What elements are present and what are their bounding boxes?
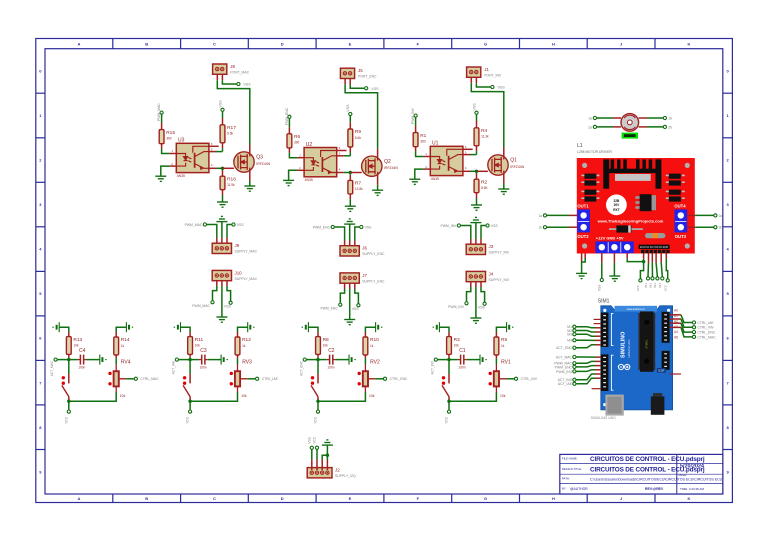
wire PWM_ENC to J6.1 [335,227,345,241]
L298 regulator IC [635,194,656,211]
wire ACT_ENC to node [307,359,318,361]
terminal 2a [593,125,596,128]
transistor Q3 (IRFZ44N) [234,152,271,172]
GND stub [613,254,615,263]
wire J4.3 to VSS [481,287,485,302]
R1 bottom stub [415,147,417,152]
svg-text:VSS: VSS [307,437,311,443]
svg-text:1k: 1k [121,344,125,348]
svg-text:R13: R13 [73,337,82,343]
wire ground to J9.2 [221,222,223,238]
svg-text:1b: 1b [668,116,672,120]
svg-text:www.arduino.cc: www.arduino.cc [627,307,646,311]
svg-text:·−·−·: ·−·−· [341,242,349,245]
svg-text:SUPPLY_ENC: SUPPLY_ENC [362,279,385,283]
svg-text:ACT_MAC: ACT_MAC [556,355,573,359]
U3 pin 1 stub [170,153,177,155]
ground (Q3 source) [244,186,255,191]
junction gate node [475,170,478,173]
svg-text:ACT_INV: ACT_INV [430,360,434,374]
svg-text:RXT: RXT [613,208,619,212]
wire VSS to R9 [349,116,351,122]
wire J8.2 to VSS [222,80,236,84]
terminal VSS [486,224,489,227]
OUT4 stub [687,214,695,216]
svg-text:10k: 10k [500,394,506,398]
terminal ACT_MAC [573,355,576,358]
terminal 2b [714,226,717,229]
J9 pin 3 stub [226,238,228,243]
svg-text:RV1: RV1 [501,359,511,365]
wire GND to ground [613,263,615,276]
svg-text:FILE NAME:: FILE NAME: [562,457,578,461]
svg-text:J9: J9 [235,243,240,248]
svg-text:IRFZ44N: IRFZ44N [384,166,398,170]
junction switch node [67,400,70,403]
J6 pin 1 stub [344,241,346,246]
wire motor to 2b [647,126,663,128]
optocoupler U2 (4N35) [299,142,340,182]
wire C2 to battery [336,359,349,361]
svg-text:R16: R16 [227,176,236,182]
terminal M1 [573,325,576,328]
terminal VSS [232,223,235,226]
OUT3 stub [687,226,695,228]
potentiometer adjust arrows [230,372,233,386]
svg-text:CTRL_MAC: CTRL_MAC [697,335,716,339]
wire IN3 to terminal [656,263,657,277]
svg-text:K: K [687,496,690,501]
svg-text:BY:: BY: [562,487,567,491]
R3 bottom stub [448,354,450,357]
wire switch node to pot bottom [190,392,237,401]
ground (J3) [470,217,481,222]
svg-text:13.8k: 13.8k [355,187,363,191]
battery symbol (VCC) [174,322,181,332]
board GND stub a [581,254,583,263]
wire battery to R13 [59,327,69,332]
Q2 gate stub [350,172,361,174]
svg-text:G: G [484,496,487,501]
resistor R3 [447,337,460,355]
L298 diode [609,225,643,232]
R14 bottom stub [115,355,117,358]
ground (R16) [217,202,228,207]
wire J2.2 to VCC [316,449,318,459]
terminal VSS [360,225,363,228]
svg-text:·−·−·: ·−·−· [467,80,475,83]
svg-text:·−·−·: ·−·−· [467,241,475,244]
svg-text:C: C [213,41,216,46]
terminal IN3 [656,277,659,280]
Arduino right header upper [662,312,670,343]
wire IN4 to terminal [661,262,662,276]
ground (opto emitter) [155,176,166,181]
switch throw stub [448,397,450,401]
L298 heatsink clamp bar [615,174,651,181]
terminal IN4 [661,277,664,280]
svg-text:C1: C1 [459,348,466,354]
terminal VSS [357,304,360,307]
svg-text:PWM_MAC: PWM_MAC [185,223,203,227]
svg-text:@AUTHOR: @AUTHOR [570,487,588,491]
wire battery to R8 [308,327,318,332]
wire PWM_MAC to SIM1 [576,361,595,363]
J1 pin 2 stub [475,77,477,83]
J7 pin 2 stub [349,283,351,288]
Arduino left header lower [601,354,609,391]
J4 pin 2 stub [475,282,477,287]
J9 pin 2 stub [221,238,223,243]
terminal VSS [365,87,368,90]
Arduino board [601,306,673,410]
connector J3 (SUPPLY_INV) [466,244,510,255]
junction node [447,358,450,361]
svg-text:G: G [484,41,487,46]
svg-text:M4: M4 [567,339,572,343]
svg-text:H: H [552,41,555,46]
svg-text:J6: J6 [362,246,367,251]
terminal VSS [221,108,224,111]
terminal ACT_ENC [303,358,306,361]
svg-text:R12: R12 [242,337,251,343]
wire J8.1 to Q3 drain [217,80,250,144]
switch arm [442,385,449,396]
Arduino ICSP/crystal small parts [657,368,666,373]
capacitor C1 [458,348,467,369]
resistor R17 [220,125,236,143]
wire ENB to VCC terminal [666,259,667,279]
svg-text:R10: R10 [370,337,379,343]
wire CTRL_MAC [681,327,692,337]
terminal 2a [714,214,717,217]
Q3 drain stub [249,145,251,154]
svg-text:VSS: VSS [598,285,602,291]
svg-text:L1: L1 [577,143,583,149]
wire ACT_INV to node [438,359,449,361]
header IN2 stub [651,253,653,262]
terminal ACT_MAC [54,358,57,361]
svg-text:11.3k: 11.3k [481,135,489,139]
ground (L298 GND) [609,276,620,281]
svg-text:CTRL_INV: CTRL_INV [521,377,538,381]
Arduino right header lower [662,351,670,370]
SIM1 pin stub M1 [596,327,601,329]
wire R9 to U2 pin5 [349,152,351,155]
svg-text:VSS: VSS [365,226,373,230]
svg-text:ACT_ENC: ACT_ENC [556,346,572,350]
svg-text:J2: J2 [335,468,340,473]
J6 pin 3 stub [354,241,356,246]
terminal 1a [543,214,546,217]
svg-text:ENA IN1 IN2 IN3 IN4 ENB: ENA IN1 IN2 IN3 IN4 ENB [640,246,668,249]
L298 OUT1/OUT2 terminal [577,203,590,239]
svg-text:R8: R8 [323,337,329,343]
R10 top stub [364,332,366,337]
svg-text:IRFZ44N: IRFZ44N [510,165,524,169]
resistor R12 [235,337,251,355]
svg-text:VCC: VCC [314,416,318,423]
svg-text:2b: 2b [668,125,672,129]
wire gate node to R2 [476,171,478,173]
J4 pin 3 stub [480,282,482,287]
svg-text:VCC: VCC [636,284,640,291]
svg-text:100n: 100n [458,366,465,370]
svg-text:VSS: VSS [498,86,506,90]
svg-text:VSS: VSS [352,307,360,311]
connector J2 (SUPPLY_IZQ) [307,468,356,479]
wire PWM_INV to SIM1 [576,370,595,372]
SIM1 pin stub ACT_IAE [596,377,601,379]
wire node to switch [448,360,450,374]
terminal IN2 [651,277,654,280]
R7 top stub [349,175,351,181]
svg-text:100n: 100n [200,366,207,370]
svg-text:RV3: RV3 [242,359,252,365]
L298 power terminal [595,235,633,253]
wire ACT_INV to SIM1 [576,374,595,380]
resistor R14 [114,337,130,355]
U3 pin 4 stub [209,167,216,169]
wire node to switch [189,360,191,374]
board GND stub b [584,254,586,259]
terminal ACT_IAE [573,382,576,385]
wire J7.2 to ground [349,289,351,320]
terminal 2b [663,125,666,128]
L298 chip marking circle [606,194,627,215]
junction switch node [447,400,450,403]
Q1 gate stub [477,170,488,172]
wire PWM_MAC to J9.1 [207,225,217,239]
wire node to C1 [449,359,458,361]
terminal CTRL_ENC [692,331,695,334]
svg-text:J5: J5 [358,68,363,73]
Arduino SIMULINO text [620,332,631,358]
R17 bottom stub [222,143,224,148]
svg-text:390: 390 [166,136,172,140]
svg-text:VCC: VCC [64,416,68,423]
U1 pin 2 stub [424,168,431,170]
wire J1.1 to Q1 drain [471,83,504,147]
capacitor C3 [199,348,208,369]
wire C1 to battery [467,359,480,361]
svg-text:VSS: VSS [237,223,245,227]
terminal VSS [491,85,494,88]
svg-text:10k: 10k [241,394,247,398]
Q2 drain stub [377,149,379,158]
terminal VCC [67,410,70,413]
svg-text:100n: 100n [327,366,334,370]
battery symbol (VCC) [302,322,309,332]
wire C4 to battery [86,359,99,361]
wire RV2 wiper to CTRL_ENC [376,378,383,380]
R12 bottom stub [237,355,239,358]
wire J10.3 to VSS [227,286,231,301]
wire R10 to RV2 [364,358,366,364]
terminal CTRL_INV [692,326,695,329]
connector J4 (SUPPLY_INV) [466,271,510,282]
svg-text:A4: A4 [674,330,678,334]
wire ACT_MAC to node [57,359,68,361]
svg-text:A: A [77,41,80,46]
wire U1.2 to ground [415,169,424,179]
SIM1 analog pin labels [674,309,678,340]
svg-text:SIM1: SIM1 [598,299,610,305]
svg-text:RV2: RV2 [370,359,380,365]
switch throw stub [317,397,319,401]
SIM1 pin stub ACT_INV [596,373,601,375]
wire PWM_MAC to R15 [161,114,163,123]
svg-text:4N35: 4N35 [431,177,439,181]
wire ACT_IAE to node [179,359,190,361]
wire PWM_ENC to SIM1 [576,366,595,367]
svg-text:D: D [281,496,284,501]
wire 2a to motor [597,126,613,128]
U2 pin 6 stub [337,150,347,152]
svg-text:J1: J1 [484,67,489,72]
terminal 1b [663,116,666,119]
wire J4.2 to ground [475,287,477,318]
svg-text:IRFZ44N: IRFZ44N [256,162,270,166]
resistor R2 [474,179,488,193]
wire switch node to pot bottom [69,392,116,401]
potentiometer RV4 (10k) [114,359,131,397]
Arduino left header upper [601,313,609,347]
SIM1 pin stub ACT_MAC [596,356,601,358]
terminal PWM_MAC [573,362,576,365]
Arduino power jack [651,393,665,415]
terminal PWM_MAC [211,301,214,304]
wire +5V to ENA node [627,259,643,262]
optocoupler U3 (4N35) [171,138,212,178]
svg-text:C2: C2 [328,348,335,354]
wire R11 to node [189,358,191,360]
SIM1 pin stub M3 [596,335,601,337]
wire node to C2 [318,359,327,361]
wire R1 to U1 pin1 [416,151,424,156]
switch pole stub [189,374,191,383]
svg-text:IN4: IN4 [658,283,662,288]
terminal PWM_INV [573,370,576,373]
terminal VSS [600,278,603,281]
svg-text:PWM_MAC: PWM_MAC [192,304,210,308]
wire PWM_INV to R1 [415,117,417,126]
ground (J4) [470,318,481,323]
wire battery to R11 [181,327,191,332]
R11 bottom stub [189,354,191,357]
resistor R1 [413,133,426,147]
svg-text:OUT4: OUT4 [674,203,686,208]
Q1 source stub [503,173,505,183]
wire J5.2 to VSS [350,84,364,88]
resistor R4 [474,128,489,146]
svg-text:RV4: RV4 [121,359,131,365]
wire U2.4 to gate node [344,172,351,174]
wire VSS to J9.3 [227,225,232,239]
svg-text:U1: U1 [432,141,439,147]
junction switch node [188,400,191,403]
connector J8 (PORT_MAC) [213,64,250,75]
L298 heatsink [603,159,661,188]
terminal IN1 [646,277,649,280]
battery symbol (VCC) [349,355,356,365]
resistor R6 [287,134,300,148]
svg-text:TIME: 4:43:35 AM: TIME: 4:43:35 AM [680,487,705,491]
svg-text:R5: R5 [501,337,507,343]
resistor R13 [66,337,82,355]
wire R16 to ground [222,195,224,202]
U1 pin 6 stub [463,148,473,150]
switch throw stub [68,397,70,401]
battery symbol (VCC) [480,355,487,365]
J2 pin 4 stub [326,460,328,471]
ground (Q2 source) [372,190,383,195]
terminal VCC [316,410,319,413]
wire ACT_IAE to SIM1 [576,378,595,384]
switch pole stub [448,374,450,383]
ground (R7) [345,206,356,211]
ground (J6) [344,219,355,224]
svg-text:ACT_IAE: ACT_IAE [558,382,573,386]
svg-text:PWM_INV: PWM_INV [440,224,457,228]
J2 pin 3 stub [321,460,323,471]
svg-text:·−·−·: ·−·−· [213,240,221,243]
wire U1.4 to gate node [470,170,477,172]
svg-text:R2: R2 [481,179,487,185]
wire M4 to SIM1 [576,339,595,341]
svg-text:B: B [145,496,148,501]
wire J7.3 to VSS [355,289,359,304]
wire J10.1 to PWM_MAC [213,286,217,300]
svg-text:10k: 10k [454,343,460,347]
junction J2 ground node [326,454,329,457]
terminal VSS [310,446,313,449]
terminal VSS [483,302,486,305]
svg-text:VCC: VCC [186,416,190,423]
svg-text:1a: 1a [538,214,542,218]
resistor R5 [494,337,507,355]
wire R8 to node [317,358,319,360]
J3 pin 1 stub [470,239,472,244]
terminal ACT_INV [434,358,437,361]
terminal CTRL_IAE [256,377,259,380]
wire C3 to battery [208,359,221,361]
svg-text:CTRL_ENC: CTRL_ENC [697,331,715,335]
R5 top stub [495,332,497,337]
terminal PWM_MAC [160,111,163,114]
terminal PWM_MAC [203,223,206,226]
potentiometer adjust arrows [489,372,492,386]
sheet border frame [36,39,733,503]
wire OUT2 to 1b [547,226,569,228]
Arduino USB connector [605,395,623,416]
wire R15 to U3 pin1 [162,148,170,153]
wire IN2 to terminal [651,262,653,276]
svg-text:390: 390 [294,141,300,145]
J2 pin 1 stub [311,460,313,471]
svg-text:ACT_IAE: ACT_IAE [172,361,176,374]
R4 bottom stub [476,146,478,151]
terminal VSS [229,301,232,304]
svg-text:10k: 10k [120,394,126,398]
ground (Q1 source) [498,189,509,194]
L298 OUT4/OUT3 terminal [674,203,687,239]
wire R3 to node [448,358,450,360]
svg-text:J4: J4 [489,271,494,276]
R14 top stub [115,332,117,337]
motor interactive bar [622,133,638,139]
L298 board [577,158,695,254]
